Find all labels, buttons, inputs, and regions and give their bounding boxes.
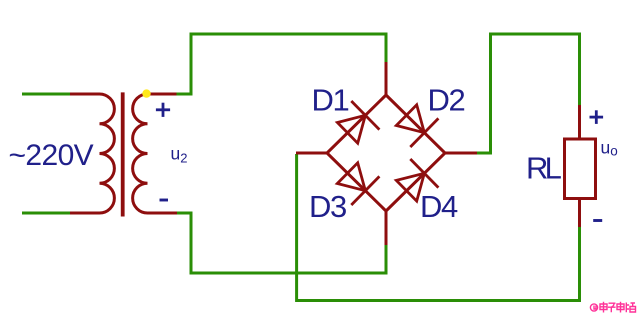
bridge top lead bbox=[385, 62, 388, 95]
resistor RL top lead bbox=[578, 105, 581, 139]
label + secondary bbox=[156, 103, 170, 117]
svg-text:D1: D1 bbox=[312, 83, 349, 118]
wire AC input bottom bbox=[22, 212, 71, 215]
transformer T1 primary winding bbox=[70, 94, 114, 213]
diode D2 bbox=[396, 105, 438, 147]
wire bridge left to resistor bottom bbox=[297, 154, 580, 301]
wire secondary bottom to bridge bottom bbox=[176, 213, 386, 273]
svg-text:~220V: ~220V bbox=[9, 139, 94, 172]
diode D1 bbox=[337, 101, 379, 143]
diode D4 bbox=[396, 159, 438, 201]
svg-text:D4: D4 bbox=[420, 189, 458, 224]
bridge right lead bbox=[445, 152, 477, 155]
label + output bbox=[590, 110, 604, 124]
transformer T1 core bbox=[121, 92, 125, 216]
svg-text:D3: D3 bbox=[309, 189, 346, 224]
wire AC input top bbox=[22, 93, 71, 96]
bridge bottom lead bbox=[385, 211, 388, 245]
transformer T1 secondary winding bbox=[133, 94, 177, 213]
resistor RL bottom lead bbox=[578, 199, 581, 228]
svg-text:D2: D2 bbox=[428, 83, 465, 118]
watermark @电子电路 bbox=[590, 302, 635, 313]
bridge left lead bbox=[296, 152, 327, 155]
wire secondary top to bridge top bbox=[176, 34, 386, 94]
transformer polarity dot bbox=[142, 89, 150, 97]
resistor RL body bbox=[565, 139, 596, 199]
bridge diamond edges bbox=[327, 95, 445, 211]
diode D3 bbox=[337, 163, 379, 205]
wire bridge right to resistor top bbox=[476, 34, 580, 153]
label - secondary bbox=[160, 199, 169, 202]
label - output bbox=[593, 219, 602, 222]
svg-text:RL: RL bbox=[526, 150, 562, 185]
